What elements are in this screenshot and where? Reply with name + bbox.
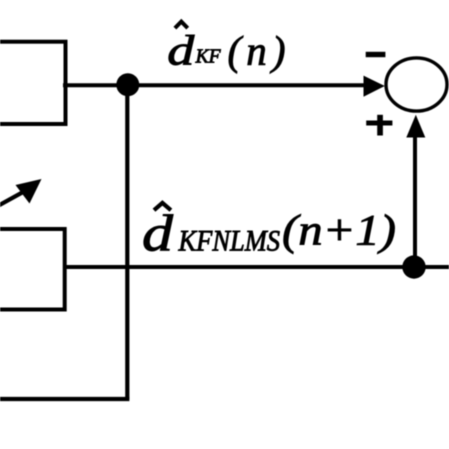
svg-text:(n): (n) bbox=[228, 28, 286, 74]
wire from KFNLMS box to right edge bbox=[63, 265, 449, 269]
svg-text:d: d bbox=[167, 28, 195, 74]
wire from KF box to summing node bbox=[63, 83, 366, 87]
svg-text:(n+1): (n+1) bbox=[282, 207, 396, 255]
node junction dot on d_KF wire bbox=[116, 73, 139, 96]
adaptive arrow on lower box bbox=[0, 192, 24, 208]
svg-text:KFNLMS: KFNLMS bbox=[178, 225, 280, 258]
summing node circle bbox=[386, 58, 447, 111]
svg-text:KF: KF bbox=[195, 47, 222, 68]
block KF (left box, cut off at image edge) bbox=[0, 42, 66, 124]
svg-text:d: d bbox=[142, 206, 174, 263]
wire vertical arrow up into summing node bbox=[413, 136, 417, 267]
wire vertical from junction down bbox=[125, 84, 129, 399]
label d_KFNLMS(n+1): hat bbox=[154, 203, 171, 210]
wire bottom feedback to left edge bbox=[0, 397, 129, 401]
block KFNLMS (lower left box, cut off at image edge) bbox=[0, 229, 65, 310]
node junction dot on d_KFNLMS wire bbox=[402, 255, 425, 278]
label d_KF(n): hat bbox=[175, 22, 188, 29]
arrowhead up into summing node bbox=[406, 115, 425, 138]
plus sign at summing node bbox=[366, 121, 392, 126]
minus sign at summing node bbox=[366, 52, 386, 57]
arrowhead into summing node bbox=[364, 76, 385, 97]
